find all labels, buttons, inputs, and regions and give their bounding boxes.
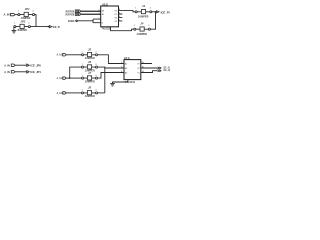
IC U2B 74LS139	[99, 2, 121, 30]
wire pin to J3	[122, 11, 135, 12]
jumper J4	[134, 22, 151, 36]
net label (PORT0EN) row 2	[65, 13, 81, 17]
wire J5 to U1A pin1	[98, 55, 124, 64]
ground GND2	[110, 84, 115, 86]
jumper J8	[82, 86, 98, 98]
svg-text:1: 1	[99, 18, 100, 20]
svg-text:Y2: Y2	[137, 68, 139, 70]
output flag ICE_PI right	[157, 10, 170, 14]
wire J8 to vertical	[98, 92, 105, 94]
svg-text:J4: J4	[140, 22, 144, 26]
row A_IN to ICE_JP0	[4, 63, 41, 67]
svg-text:1: 1	[82, 64, 83, 66]
svg-text:A1: A1	[125, 62, 127, 65]
svg-text:2: 2	[33, 10, 34, 12]
svg-text:A_IN: A_IN	[4, 63, 10, 67]
svg-text:A2: A2	[125, 67, 127, 70]
svg-text:ICE_A0: ICE_A0	[163, 68, 170, 72]
svg-text:2: 2	[96, 64, 97, 66]
wire	[66, 54, 81, 56]
wire J6 left down to A_A14 net	[70, 67, 82, 78]
svg-text:O0: O0	[115, 11, 117, 13]
svg-text:1: 1	[14, 22, 15, 24]
svg-text:O2: O2	[115, 17, 117, 19]
svg-text:A_A15: A_A15	[57, 53, 64, 57]
wire with fork to pins	[78, 19, 101, 23]
svg-text:1: 1	[134, 25, 135, 27]
junction	[104, 67, 105, 68]
svg-text:A_A14: A_A14	[57, 76, 64, 80]
U2B right pin stubs	[119, 11, 123, 21]
svg-text:J6: J6	[88, 60, 92, 64]
wire J3 to junction	[152, 11, 156, 13]
svg-text:Y3: Y3	[137, 72, 139, 74]
jumper J5	[82, 48, 98, 60]
svg-text:J7: J7	[88, 71, 92, 75]
svg-text:ICE_PI: ICE_PI	[53, 25, 60, 29]
svg-text:3: 3	[99, 13, 100, 15]
svg-text:ICE_JP0: ICE_JP0	[30, 63, 41, 67]
svg-text:A0: A0	[102, 10, 104, 13]
svg-text:1: 1	[135, 8, 136, 10]
svg-text:2: 2	[96, 75, 97, 77]
svg-text:J5: J5	[88, 48, 92, 52]
wire J7 to U1A pin3	[98, 73, 124, 79]
ground GND1	[12, 31, 17, 33]
wire J4 up to junction	[150, 12, 155, 29]
wire	[81, 13, 101, 15]
wire J6 right to U1A pin2 and down to J8	[98, 67, 124, 93]
jumper J6	[82, 60, 98, 72]
input flag A_A13	[57, 91, 67, 95]
wire	[66, 77, 81, 79]
junction dot	[155, 11, 157, 13]
svg-text:2: 2	[28, 22, 29, 24]
input flag A_A15	[57, 53, 67, 57]
svg-text:4: 4	[121, 66, 122, 69]
svg-text:A3: A3	[125, 71, 127, 74]
svg-text:2: 2	[99, 9, 100, 11]
junction node ICE_PI	[48, 26, 50, 28]
svg-text:1: 1	[18, 10, 19, 12]
svg-text:J8: J8	[88, 86, 92, 90]
svg-text:J3: J3	[142, 4, 146, 8]
wire	[81, 10, 101, 12]
svg-text:O1: O1	[115, 14, 117, 16]
svg-text:2: 2	[121, 62, 122, 64]
svg-text:A_A13: A_A13	[57, 91, 64, 95]
jumper JP2	[14, 19, 31, 32]
svg-text:A_IN: A_IN	[4, 13, 10, 17]
svg-text:JP2: JP2	[20, 19, 25, 23]
IC U1A 74LS244	[121, 56, 143, 80]
jumper JP1	[18, 7, 35, 20]
svg-text:O3: O3	[115, 21, 117, 23]
row A_IN to ICE_JP1	[4, 70, 41, 74]
svg-text:ICE_PI: ICE_PI	[161, 10, 170, 14]
input flag A_IN top-left	[4, 13, 16, 17]
U1A right pin wires	[141, 64, 158, 73]
output flag ICE_PI	[49, 25, 60, 29]
net label (PORT0EN) row 1	[65, 10, 81, 14]
svg-text:A_IN: A_IN	[4, 70, 10, 74]
wire JP2 left to ground	[13, 27, 15, 31]
svg-text:JUMPER: JUMPER	[85, 79, 95, 83]
svg-text:1: 1	[82, 90, 83, 92]
svg-text:JUMPER: JUMPER	[85, 94, 95, 98]
svg-text:JP1: JP1	[25, 7, 30, 11]
svg-text:JUMPER: JUMPER	[17, 28, 27, 32]
jumper J7	[82, 71, 98, 83]
svg-text:2: 2	[96, 52, 97, 54]
wire	[30, 26, 47, 28]
junction	[92, 20, 93, 21]
output flag ICE_A1	[158, 66, 171, 70]
input flag A_A14	[57, 76, 67, 80]
wire U2B bottom pin to J4	[111, 27, 134, 31]
jumper J3	[135, 4, 152, 18]
wire	[66, 92, 81, 94]
ground wire from U1A	[113, 80, 128, 84]
junction	[69, 77, 71, 79]
svg-text:A1: A1	[102, 13, 104, 16]
wire	[15, 14, 18, 16]
svg-text:1: 1	[82, 75, 83, 77]
svg-text:1: 1	[82, 52, 83, 54]
svg-text:(PORT0EN: (PORT0EN	[65, 13, 74, 17]
svg-text:JUMPER: JUMPER	[138, 14, 149, 18]
svg-text:JUMPER: JUMPER	[137, 32, 148, 36]
svg-text:2: 2	[148, 25, 149, 27]
svg-text:6: 6	[121, 71, 122, 73]
wire	[35, 15, 37, 27]
svg-text:74LS139: 74LS139	[102, 27, 112, 31]
svg-text:ICE_JP1: ICE_JP1	[30, 70, 41, 74]
svg-text:ROM0E: ROM0E	[68, 19, 74, 23]
svg-text:Y1: Y1	[137, 63, 139, 65]
svg-text:2: 2	[150, 8, 151, 10]
net label ROM0E	[68, 19, 78, 23]
svg-text:2: 2	[96, 90, 97, 92]
output flag ICE_A0	[158, 68, 171, 72]
